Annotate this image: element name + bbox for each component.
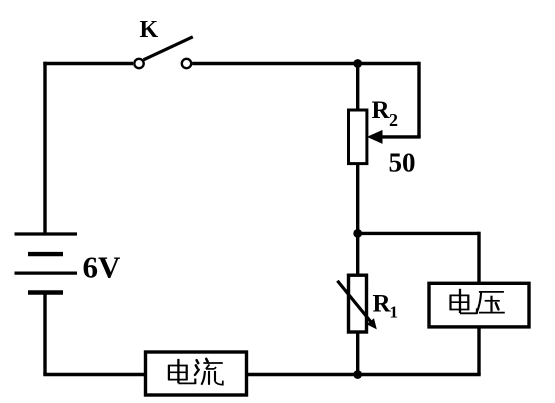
wire top-left horizontal [43,62,133,65]
ammeter box [146,352,247,395]
wire voltmeter top vertical [477,232,480,284]
svg-text:K: K [140,17,159,43]
svg-text:2: 2 [389,110,398,130]
switch K lever [144,37,193,60]
battery top long plate [15,232,78,235]
R2 slider arrowhead [367,130,383,144]
wire top horizontal to R2 branch [192,62,419,65]
junction node bottom [353,370,362,379]
junction node middle [353,229,362,238]
resistor R2 body [349,110,367,164]
R1 arrowhead [367,318,377,329]
svg-text:50: 50 [389,148,416,178]
wire left vertical lower [43,293,46,375]
wire main vertical R1 to bottom [356,332,359,375]
wire main vertical R2 to node [356,164,359,234]
wire R2 slider horizontal [382,135,421,138]
wire R2 branch right vertical [417,62,420,137]
wire bottom horizontal right [247,373,481,376]
switch K contact right [182,59,191,68]
svg-text:1: 1 [390,303,399,322]
label 电压 voltmeter [450,289,477,314]
battery short plate 1 [28,252,63,256]
wire middle horizontal to voltmeter [358,232,479,235]
wire main vertical to R2 [356,64,359,111]
junction node top [353,59,362,68]
svg-text:R: R [372,97,391,124]
R1 diagonal arrow line [337,281,371,322]
wire voltmeter bottom vertical [477,327,480,375]
battery long plate 2 [15,272,78,275]
battery short plate 2 [28,290,63,294]
voltmeter box [429,283,529,327]
switch K contact left [134,59,143,68]
svg-text:6V: 6V [83,250,122,285]
wire left vertical upper [43,62,46,234]
wire main vertical node to R1 [356,233,359,275]
label 电流 ammeter [168,359,195,384]
wire bottom-left horizontal [43,373,145,376]
resistor R1 body [349,275,367,332]
